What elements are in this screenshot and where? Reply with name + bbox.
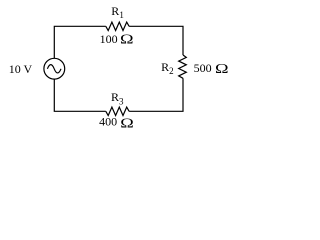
svg-text:R2: R2: [161, 60, 174, 76]
wire: [129, 26, 183, 55]
wire: [54, 26, 106, 58]
svg-text:R3: R3: [111, 90, 124, 107]
wire: [54, 79, 106, 111]
sine symbol: [47, 65, 61, 73]
svg-text:R1: R1: [111, 4, 124, 20]
svg-text:Ω: Ω: [120, 31, 134, 47]
resistor R2: [179, 55, 187, 78]
AC source V1: [44, 58, 65, 79]
resistor R1: [106, 22, 129, 30]
svg-text:100: 100: [100, 32, 118, 46]
svg-text:400: 400: [99, 115, 117, 129]
svg-text:Ω: Ω: [120, 115, 134, 130]
wire: [129, 78, 183, 111]
resistor R3: [106, 107, 129, 115]
svg-text:Ω: Ω: [215, 61, 229, 77]
svg-text:500: 500: [194, 61, 212, 75]
svg-text:10 V: 10 V: [9, 62, 33, 76]
